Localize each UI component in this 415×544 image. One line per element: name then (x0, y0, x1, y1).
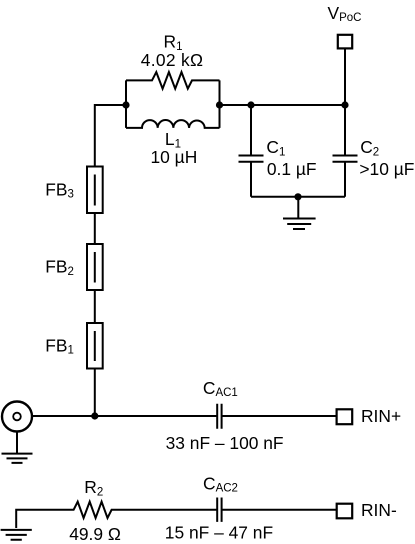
svg-text:R2: R2 (84, 477, 103, 498)
svg-text:FB2: FB2 (45, 257, 74, 278)
svg-text:C2: C2 (360, 137, 379, 158)
svg-text:10 µH: 10 µH (151, 147, 198, 167)
svg-text:4.02 kΩ: 4.02 kΩ (141, 50, 203, 70)
svg-text:C1: C1 (266, 137, 285, 158)
svg-text:VPoC: VPoC (328, 3, 362, 24)
svg-text:FB3: FB3 (45, 179, 74, 200)
svg-text:15 nF – 47 nF: 15 nF – 47 nF (165, 523, 273, 543)
svg-text:0.1 µF: 0.1 µF (267, 159, 317, 179)
svg-text:CAC2: CAC2 (203, 474, 238, 495)
svg-text:FB1: FB1 (45, 335, 74, 356)
svg-text:33 nF – 100 nF: 33 nF – 100 nF (166, 433, 284, 453)
svg-text:RIN+: RIN+ (361, 406, 401, 426)
svg-text:>10 µF: >10 µF (359, 159, 414, 179)
svg-text:RIN-: RIN- (361, 500, 397, 520)
svg-text:49.9 Ω: 49.9 Ω (69, 524, 121, 544)
svg-text:CAC1: CAC1 (203, 378, 238, 399)
